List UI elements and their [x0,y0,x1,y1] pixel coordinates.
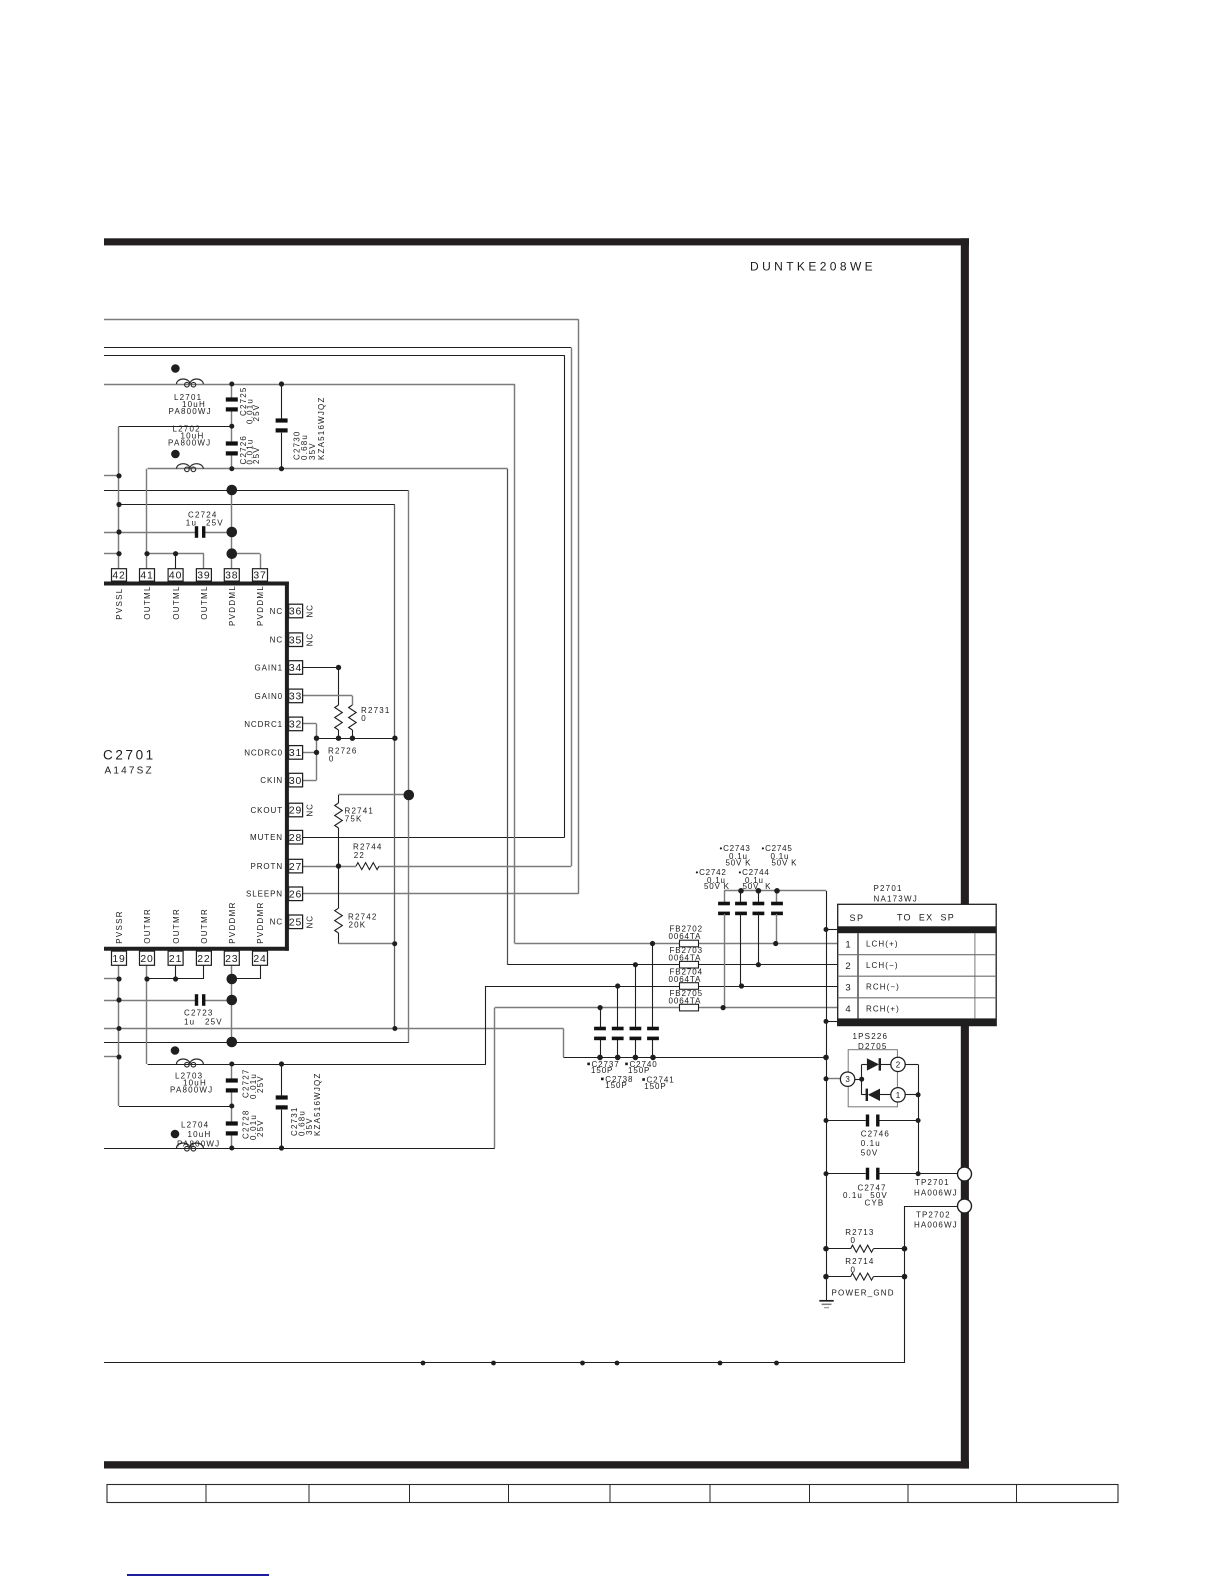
svg-text:24: 24 [253,954,266,965]
svg-text:OUTML: OUTML [200,585,209,620]
svg-text:50V K: 50V K [772,859,798,868]
svg-text:21: 21 [169,954,182,965]
svg-text:0064TA: 0064TA [669,954,702,963]
wire C2743 bottom to LCH- row [758,914,760,965]
capacitor C2726 0.01u 25V [226,441,238,445]
svg-text:25V: 25V [256,1075,265,1093]
pin 33 box [289,689,303,703]
svg-text:LCH(+): LCH(+) [866,940,899,949]
resistor R2714 0 ohm [826,1276,851,1278]
svg-text:CKIN: CKIN [260,776,283,785]
wire R2731 to bus [352,730,354,738]
wire TP2702 net vertical to bottom rail [904,1206,906,1363]
wire C2744 top stub [740,891,742,904]
wire page stub to PVSSL riser upper [104,475,119,477]
svg-text:35V: 35V [308,442,317,460]
capacitor C2746 0.1u 50V [866,1115,869,1127]
svg-text:HA006WJ: HA006WJ [914,1188,958,1197]
svg-text:4: 4 [845,1004,850,1015]
wire GAIN1 pin34 [303,667,339,669]
inductor L2704 10uH PA800WJ [177,1143,204,1148]
wire top pin bus PVDDML [232,553,260,555]
ferrite bead FB2705 0064TA [680,1004,699,1011]
wire C2742 bottom to RCH+ row [724,914,726,1008]
svg-text:L2704: L2704 [181,1121,209,1130]
pin 23 box [224,951,239,965]
svg-text:CYB: CYB [865,1198,885,1207]
pin 20 box [140,951,155,965]
pin 24 box [253,951,268,965]
svg-text:NA173WJ: NA173WJ [874,894,918,903]
svg-text:OUTML: OUTML [143,585,152,620]
wire CKIN pin30 [303,780,317,782]
svg-text:0064TA: 0064TA [669,975,702,984]
wire D2 anode to pin1 [880,1094,891,1096]
capacitor C2740 150P [630,1027,642,1031]
svg-text:PA800WJ: PA800WJ [170,1086,213,1095]
svg-text:PVDDMR: PVDDMR [256,901,265,943]
svg-text:TP2702: TP2702 [916,1210,951,1219]
wire top pin bus stub to PVSSL [104,553,119,555]
svg-text:26: 26 [289,890,302,901]
svg-text:TP2701: TP2701 [915,1178,950,1187]
wire L2701 out to C2725 [231,384,233,398]
ground symbol POWER_GND [826,1277,828,1301]
wire RCH- vertical [485,986,487,1064]
svg-text:D2705: D2705 [858,1042,888,1051]
test point TP2701 HA006WJ [958,1167,972,1181]
wire to diode D2 cathode [862,1094,867,1096]
wire C2725 to junction [231,412,233,427]
value label C2740 [625,1063,628,1066]
wire page stub to PVSSR riser [104,1056,119,1058]
svg-text:28: 28 [289,833,302,844]
wire MUTEN net vertical [564,355,566,837]
wire pin33 corner to R2731 [352,696,354,705]
wire OUTMR via L2703 to RCH- horizontal [148,1064,486,1066]
svg-text:42: 42 [112,571,125,582]
polarity dot L2704 [171,1130,180,1139]
svg-text:RCH(−): RCH(−) [866,983,900,992]
svg-text:0064TA: 0064TA [669,996,702,1005]
svg-text:41: 41 [140,571,153,582]
pin 34 box [289,661,303,675]
pin 36 box [289,604,303,618]
svg-text:POWER_GND: POWER_GND [832,1289,895,1298]
svg-text:0: 0 [329,754,335,763]
pin 40 box [168,569,183,581]
svg-text:25V: 25V [252,404,261,422]
svg-text:0: 0 [851,1236,857,1245]
value label C2738 [601,1078,604,1081]
ferrite bead FB2704 0064TA [680,983,699,990]
pin 42 box [112,569,127,581]
wire C2740 top stub from LCH- row [635,965,637,1028]
svg-text:0: 0 [851,1266,857,1275]
svg-text:1: 1 [845,939,850,950]
connector P2701 NA173WJ table [838,904,997,1025]
wire PVSSR rail [104,1028,564,1030]
svg-text:KZA516WJQZ: KZA516WJQZ [317,396,326,460]
wire C2731 to L2704 out [281,1110,283,1148]
svg-text:PVDDMR: PVDDMR [228,901,237,943]
wire pin39 stub [203,554,205,569]
capacitor C2730 0.68u 35V KZA516WJQZ [276,418,288,422]
svg-text:PA800WJ: PA800WJ [177,1139,220,1148]
wire to C2746 left [826,1120,866,1122]
svg-text:TO EX SP: TO EX SP [897,913,955,923]
capacitor C2728 0.01u 25V [226,1121,238,1125]
wire to C2747 left [826,1173,866,1175]
resistor R2741 75K pull-up [339,794,409,796]
capacitor C2747 0.1u 50V CYB [866,1168,869,1180]
svg-text:10uH: 10uH [188,1130,212,1139]
svg-text:3: 3 [845,1075,850,1084]
svg-text:1u: 1u [184,1018,195,1027]
svg-text:50V K: 50V K [704,882,730,891]
wire stub to connector shield bottom [826,1021,838,1023]
svg-text:25V: 25V [252,446,261,464]
wire NCDRC1 pin32 [303,723,317,725]
wire OUTMR via L2704 to RCH+ horizontal [104,1148,495,1150]
junction dots [229,382,234,387]
svg-text:A147SZ: A147SZ [105,766,154,777]
wire pin2 right [905,1064,918,1066]
diode D2705 1PS226 box [848,1050,897,1107]
svg-text:22: 22 [197,954,210,965]
wire pin24 stub [260,966,262,979]
svg-text:0.1u: 0.1u [861,1139,881,1148]
wire GAIN/NCDRC bus [317,738,395,740]
svg-text:DUNTKE208WE: DUNTKE208WE [750,260,876,274]
wire LCH+ row to P2701 pin1 [515,943,838,945]
wire NCDRC0 pin31 [303,752,317,754]
diode D2705b lower [866,1089,868,1101]
inductor L2701 10uH PA800WJ [177,379,204,384]
svg-text:1: 1 [896,1091,901,1100]
wire OUTML via L2701 to LCH+ horizontal [104,384,515,386]
wire C2747 right to TP2701 [879,1173,957,1175]
pin 28 box [289,830,303,844]
value label C2741 [642,1078,645,1081]
wire C2730 to L2702 out [281,433,283,469]
svg-text:OUTMR: OUTMR [143,908,152,944]
wire R2742 to PVSS vertical [339,943,395,945]
pin 25 box [289,915,303,929]
svg-text:PA800WJ: PA800WJ [169,407,212,416]
svg-text:KZA516WJQZ: KZA516WJQZ [313,1072,322,1136]
wire pin1 right [905,1094,918,1096]
svg-text:0064TA: 0064TA [669,932,702,941]
wire L2703 out to C2727 [231,1064,233,1079]
wire GAIN0 pin33 [303,695,353,697]
svg-text:NC: NC [306,633,315,646]
wire ground to D2705 pin3 [826,1078,840,1080]
svg-text:1u: 1u [186,518,197,527]
wire pin41 riser [146,469,148,569]
pin 1 circle D2705 [891,1088,905,1102]
wire bottom PGND rail [104,1362,905,1364]
svg-text:NCDRC0: NCDRC0 [244,748,283,757]
wire SLEEPN net vertical [578,319,580,893]
pin 26 box [289,887,303,901]
wire bottom pin bus stub to PVSSR [104,978,119,980]
wire junction to C2726 [231,426,233,441]
svg-text:CKOUT: CKOUT [251,806,284,815]
svg-text:OUTMR: OUTMR [172,908,181,944]
capacitor C2745 0.1u 50V K [771,902,783,906]
svg-text:150P: 150P [605,1081,627,1090]
svg-text:PVDDML: PVDDML [228,585,237,626]
svg-text:35: 35 [289,635,302,646]
capacitor C2741 150P [647,1027,659,1031]
resistor R2713 0 ohm [826,1248,851,1250]
svg-text:PVSSL: PVSSL [115,587,124,619]
svg-text:36: 36 [289,607,302,618]
pin 29 box [289,803,303,817]
wire junction to C2728 [231,1106,233,1122]
svg-text:22: 22 [354,851,365,860]
pin 22 box [196,951,211,965]
svg-text:OUTMR: OUTMR [200,908,209,944]
svg-text:25V: 25V [206,518,224,527]
wire TP2702 left [905,1206,958,1208]
pin 27 box [289,859,303,873]
wire pin23 riser down [231,966,233,1042]
svg-text:SLEEPN: SLEEPN [246,890,283,899]
wire C2742 top stub [724,891,726,904]
svg-text:2: 2 [896,1060,901,1069]
wire C2737 bottom to ground rail [600,1040,602,1057]
pin 2 circle D2705 [891,1057,905,1071]
polarity dot L2702 [171,450,180,459]
test point TP2702 HA006WJ [958,1199,972,1213]
svg-text:34: 34 [289,663,302,674]
svg-text:GAIN1: GAIN1 [254,663,283,672]
wire PVDDML rail [104,490,409,492]
capacitor C2743 0.1u 50V K [753,902,765,906]
svg-text:37: 37 [253,571,266,582]
wire diode output vertical [918,1064,920,1173]
wire PVSS vertical [394,505,396,1029]
wire R2731a to bus [338,730,340,738]
wire pin19 riser down [118,966,120,1106]
wire C2726 to L2702 out [231,455,233,469]
wire SLEEPN net horizontal top [104,319,579,321]
wire RCH+ row to P2701 pin4 [495,1007,838,1009]
wire C2727/C2728 junction line [119,1106,232,1108]
capacitor C2738 150P [612,1027,624,1031]
svg-text:38: 38 [225,571,238,582]
svg-text:31: 31 [289,748,302,759]
svg-text:NC: NC [270,636,283,645]
svg-text:0: 0 [361,714,367,723]
svg-text:33: 33 [289,692,302,703]
svg-text:2: 2 [845,961,850,972]
wire diode common vertical [861,1064,863,1094]
wire C2740 bottom to ground rail [635,1040,637,1057]
wire C2723 line left segment [104,1000,196,1002]
wire C2724 line right segment [203,532,232,534]
svg-text:50V K: 50V K [726,859,752,868]
pin 37 box [253,569,268,581]
wire C2743 top stub [758,891,760,904]
wire PROTN net vertical [571,348,573,866]
wire pin34 dot to R2731a [338,668,340,706]
svg-text:39: 39 [197,571,210,582]
wire C2738 bottom to ground rail [617,1040,619,1057]
wire pin21 stub [175,966,177,979]
wire OUTML via L2702 to LCH- horizontal [148,468,508,470]
svg-text:MUTEN: MUTEN [250,833,283,842]
wire to diode D1 anode [862,1064,867,1066]
wire bottom pin bus OUTMR [147,978,204,980]
svg-text:PVDDML: PVDDML [256,585,265,626]
svg-text:NC: NC [306,604,315,617]
svg-text:29: 29 [289,806,302,817]
wire C2741 top stub from LCH+ row [652,944,654,1028]
wire D1 cathode to pin2 [881,1064,891,1066]
inductor L2702 10uH PA800WJ [177,464,204,469]
svg-text:PROTN: PROTN [251,862,284,871]
svg-text:P2701: P2701 [874,884,903,893]
wire PROTN net horizontal top [104,347,571,349]
capacitor C2742 0.1u 50V K [718,902,730,906]
svg-text:25V: 25V [256,1119,265,1137]
wire C2725/C2726 junction to PVSSL riser [119,426,232,428]
resistor R2731 0 ohm (GAIN0) [349,705,357,730]
wire L2701 out to C2730 [281,384,283,419]
svg-text:25: 25 [289,918,302,929]
wire SLEEPN from pin 26 [303,893,579,895]
capacitor C2727 0.01u 25V [226,1078,238,1082]
wire stub to connector shield top [826,929,838,931]
pin 32 box [289,717,303,731]
svg-text:1PS226: 1PS226 [853,1032,889,1041]
wire RCH- row to P2701 pin3 [486,986,838,988]
svg-text:27: 27 [289,862,302,873]
capacitor C2731 0.68u 35V KZA516WJQZ [276,1095,288,1099]
svg-text:30: 30 [289,776,302,787]
wire pin22 stub [203,966,205,979]
wire ground net vertical x=826 [826,891,828,1277]
svg-text:LCH(−): LCH(−) [866,961,899,970]
svg-text:OUTML: OUTML [172,585,181,620]
wire C2738 top stub from RCH- row [617,986,619,1028]
svg-text:PA800WJ: PA800WJ [168,439,211,448]
svg-text:NC: NC [270,918,283,927]
pin 39 box [196,569,211,581]
svg-text:C2701: C2701 [103,748,156,763]
wire PVSSL rail [119,504,395,506]
wire R2744 to PROTN vertical [379,866,571,868]
wire pins 32-31-30 vertical [316,724,318,780]
svg-text:32: 32 [289,720,302,731]
wire PVSS to ground rail vertical [563,1029,565,1058]
resistor R2731a 0 ohm (GAIN1) [335,705,343,730]
svg-text:NC: NC [306,803,315,816]
svg-text:50V: 50V [861,1148,879,1157]
wire C2737 top stub from RCH+ row [600,1008,602,1028]
wire C2745 top stub [776,891,778,904]
wire pin37 stub [260,554,262,569]
ferrite bead FB2702 0064TA [680,940,699,947]
svg-text:NCDRC1: NCDRC1 [244,720,283,729]
wire LCH- row to P2701 pin2 [508,964,838,966]
pin 31 box [289,746,303,760]
svg-text:PVSSR: PVSSR [115,910,124,944]
wire C2744 bottom to RCH- row [740,914,742,986]
pin 30 box [289,773,303,787]
svg-text:RCH(+): RCH(+) [866,1004,900,1013]
wire MUTEN net horizontal top [104,355,565,357]
pin 41 box [140,569,155,581]
diode D2705a upper [867,1058,879,1070]
wire PVDD vertical [408,490,410,1042]
wire pin20 riser down to L2703 [146,966,148,1064]
pin 21 box [168,951,183,965]
wire C2728 to L2704 out [231,1135,233,1148]
svg-text:C2723: C2723 [184,1009,214,1018]
pin 38 box [224,569,239,581]
svg-text:HA006WJ: HA006WJ [914,1220,958,1229]
svg-text:150P: 150P [644,1082,666,1091]
svg-text:40: 40 [169,571,182,582]
capacitor C2725 0.01u 25V [226,397,238,401]
svg-text:NC: NC [270,607,283,616]
wire C2727 to junction [231,1092,233,1106]
wire ground rail under 150P caps [564,1057,827,1059]
wire pin42 riser [118,426,120,569]
wire PROTN pin27 to R2744 [303,866,356,868]
op-amp U1 audio amplifier IC C2701 body [104,582,289,586]
capacitor C2723 1u 25V [195,994,198,1006]
wire PVDDMR rail [104,1042,409,1044]
svg-text:25V: 25V [205,1018,223,1027]
svg-text:19: 19 [112,954,125,965]
wire LCH+ vertical [514,384,516,944]
wire pin40 stub [175,554,177,569]
wire LCH- vertical [507,469,509,965]
capacitor C2744 0.1u 50V K [735,902,747,906]
svg-text:3: 3 [845,982,850,993]
wire RCH+ vertical [494,1008,496,1148]
wire C2742-C2745 top bus to ground vertical [724,890,826,892]
value label C2737 [587,1063,590,1066]
resistor R2744 22 ohm [356,863,379,870]
svg-text:NC: NC [306,915,315,928]
wire L2703 out to C2731 [281,1064,283,1096]
wire pin38 riser from PVDD rail [231,490,233,569]
wire pin3 to diode junction [855,1079,862,1081]
wire top pin bus OUTML [147,553,204,555]
ferrite bead FB2703 0064TA [680,961,699,968]
pin 3 circle D2705 [840,1072,854,1086]
svg-text:20K: 20K [349,921,367,930]
wire C2723 line right segment [203,1000,232,1002]
svg-text:SP: SP [850,913,865,923]
polarity dot L2701 [171,364,180,373]
wire MUTEN from pin 28 [303,837,565,839]
polarity dot L2703 [171,1046,180,1055]
wire bottom pin bus PVDDMR [232,978,260,980]
capacitor C2724 1u 25V [195,526,198,538]
capacitor C2737 150P [594,1027,606,1031]
svg-text:C2746: C2746 [861,1129,890,1138]
wire C2746 right [879,1120,918,1122]
inductor L2703 10uH PA800WJ [177,1059,204,1064]
pin 35 box [289,633,303,647]
